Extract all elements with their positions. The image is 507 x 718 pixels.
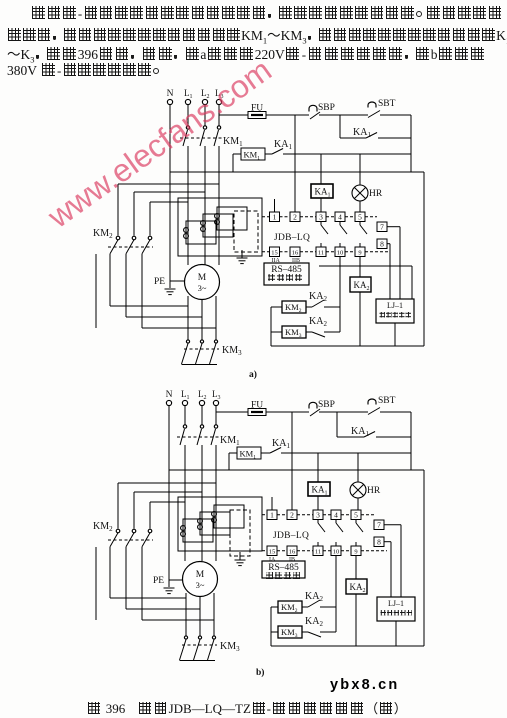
svg-text:RS–485: RS–485 [271, 265, 302, 275]
svg-text:9: 9 [354, 549, 357, 556]
svg-text:KA2: KA2 [305, 616, 323, 628]
svg-text:HR: HR [367, 486, 381, 496]
svg-text:KA1: KA1 [312, 485, 328, 497]
svg-text:SBP: SBP [318, 103, 335, 113]
svg-text:SBT: SBT [378, 396, 396, 406]
svg-text:2: 2 [290, 511, 294, 520]
svg-text:b): b) [256, 667, 264, 678]
svg-text:PE: PE [153, 576, 164, 586]
svg-text:5: 5 [354, 511, 358, 520]
svg-text:15: 15 [269, 549, 276, 556]
svg-text:PE: PE [154, 277, 165, 287]
svg-text:KA2: KA2 [354, 280, 370, 292]
svg-text:9: 9 [358, 250, 361, 257]
svg-text:16: 16 [289, 549, 296, 556]
svg-text:3: 3 [319, 213, 323, 222]
svg-text:N: N [166, 390, 173, 400]
svg-text:HR: HR [369, 189, 383, 199]
svg-text:16: 16 [292, 250, 299, 257]
svg-text:3~: 3~ [196, 580, 205, 590]
svg-text:KM2: KM2 [281, 602, 298, 614]
svg-text:M: M [196, 570, 205, 580]
svg-text:11: 11 [318, 250, 324, 257]
svg-text:a): a) [249, 369, 257, 380]
svg-text:3~: 3~ [198, 283, 207, 293]
svg-text:JDB–LQ: JDB–LQ [274, 233, 310, 243]
svg-text:KM3: KM3 [222, 345, 242, 357]
svg-text:SBT: SBT [378, 99, 396, 109]
svg-text:KM2: KM2 [93, 228, 113, 240]
svg-text:KM2: KM2 [93, 521, 113, 533]
svg-text:11: 11 [315, 549, 321, 556]
svg-text:1: 1 [273, 213, 277, 222]
svg-text:KM2: KM2 [285, 302, 302, 314]
svg-text:L2: L2 [198, 389, 207, 401]
svg-text:KM3: KM3 [285, 327, 302, 339]
svg-text:5: 5 [358, 213, 362, 222]
svg-text:4: 4 [334, 511, 338, 520]
svg-text:KA1: KA1 [274, 139, 292, 151]
svg-text:15: 15 [271, 250, 278, 257]
svg-text:KA1: KA1 [353, 127, 371, 139]
svg-text:KA2: KA2 [305, 591, 323, 603]
svg-text:KM1: KM1 [223, 136, 243, 148]
svg-text:L3: L3 [212, 389, 221, 401]
svg-text:KM3: KM3 [220, 641, 240, 653]
svg-text:KA2: KA2 [350, 582, 366, 594]
svg-text:10: 10 [333, 549, 340, 556]
svg-text:KA1: KA1 [351, 426, 369, 438]
svg-text:LJ–1: LJ–1 [387, 301, 403, 310]
svg-text:KA1: KA1 [272, 438, 290, 450]
svg-text:4: 4 [338, 213, 342, 222]
svg-text:KA2: KA2 [309, 291, 327, 303]
svg-text:7: 7 [380, 223, 384, 232]
svg-text:KM1: KM1 [220, 435, 240, 447]
svg-text:LJ–1: LJ–1 [388, 599, 404, 608]
svg-text:KM3: KM3 [281, 627, 298, 639]
svg-text:8: 8 [380, 240, 384, 249]
svg-text:2: 2 [293, 213, 297, 222]
svg-text:M: M [198, 273, 207, 283]
svg-text:JDB–LQ: JDB–LQ [273, 531, 309, 541]
svg-text:7: 7 [377, 521, 381, 530]
svg-text:RS–485: RS–485 [268, 563, 299, 573]
svg-text:KA1: KA1 [315, 187, 331, 199]
svg-text:N: N [167, 89, 174, 99]
svg-text:L1: L1 [181, 389, 190, 401]
svg-text:10: 10 [337, 250, 344, 257]
svg-text:1: 1 [270, 511, 274, 520]
svg-text:KA2: KA2 [309, 316, 327, 328]
svg-text:SBP: SBP [318, 400, 335, 410]
svg-text:3: 3 [316, 511, 320, 520]
svg-text:8: 8 [377, 538, 381, 547]
